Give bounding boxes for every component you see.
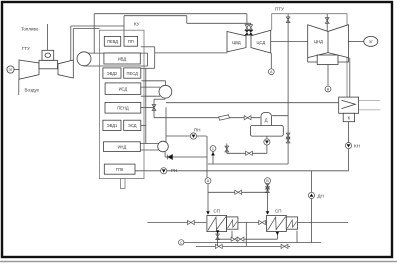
- condensate pump KN: [345, 143, 351, 149]
- svg-text:КН: КН: [354, 144, 360, 149]
- node B2: [265, 178, 271, 184]
- svg-text:СП: СП: [275, 209, 281, 214]
- check valve ND drum: [167, 155, 172, 160]
- svg-text:ДН: ДН: [318, 194, 324, 199]
- node A top: [268, 69, 274, 75]
- ESD outlet stub: [141, 124, 146, 126]
- line to condenser: [349, 58, 351, 98]
- extraction line down from PTU: [287, 14, 289, 164]
- feed pump line: [166, 135, 207, 137]
- A2 drop to SP1: [207, 184, 209, 214]
- deaerator inlet valve: [244, 116, 251, 120]
- KU right side vertical: [145, 68, 147, 143]
- ISD drum circulation lines: [141, 86, 160, 88]
- generator EG1: [7, 66, 14, 73]
- CND to generator: [348, 40, 363, 42]
- CSD to CND shaft line: [271, 40, 308, 42]
- chimney: [120, 179, 125, 189]
- svg-text:Воздух: Воздух: [25, 88, 40, 93]
- A-B bypass line: [208, 191, 268, 193]
- reheat steam line to CSD: [124, 15, 187, 17]
- ESD box: [124, 120, 141, 130]
- ISD box: [105, 83, 141, 95]
- PESD box: [124, 68, 141, 78]
- deaerator steam line: [272, 115, 288, 117]
- svg-text:ПТУ: ПТУ: [275, 7, 284, 12]
- PEND box: [105, 102, 141, 113]
- CND inlet valve: [325, 18, 329, 24]
- air inlet line: [18, 79, 20, 95]
- svg-text:ИВД: ИВД: [118, 56, 127, 61]
- svg-text:ЭВД2: ЭВД2: [107, 71, 118, 76]
- water line to deaerator: [154, 117, 260, 119]
- PP riser: [123, 16, 125, 37]
- SP1 drain cooler: [227, 217, 238, 229]
- SD drum steam line: [142, 80, 166, 82]
- node A2: [205, 178, 211, 184]
- extraction header to C: [208, 163, 288, 165]
- drain junction drop: [245, 223, 247, 247]
- C1 node riser: [212, 151, 214, 164]
- PP box: [124, 36, 138, 46]
- svg-text:ИСД: ИСД: [119, 87, 128, 92]
- network water inlet line: [147, 222, 206, 224]
- svg-text:ЦВД: ЦВД: [232, 40, 241, 45]
- KU outer box: [99, 30, 144, 178]
- IVD drum circulation lines: [84, 52, 148, 54]
- node C2: [179, 240, 184, 245]
- IP drum: [159, 85, 172, 98]
- PEND vent valve: [152, 105, 156, 111]
- C riser valve: [225, 146, 229, 152]
- svg-text:ПН: ПН: [194, 128, 200, 133]
- svg-text:РН: РН: [171, 168, 177, 173]
- drain pump DN: [308, 192, 314, 198]
- SP2 inlet valve: [259, 220, 266, 224]
- CSD cylinder: [251, 30, 271, 53]
- GT turbine: [58, 60, 73, 78]
- condensate line KN: [348, 149, 350, 171]
- node C1: [210, 146, 216, 152]
- svg-text:ЭСД: ЭСД: [128, 123, 137, 128]
- combustion chamber: [42, 50, 54, 60]
- svg-text:ГТУ: ГТУ: [22, 46, 30, 51]
- CND exhaust neck: [317, 55, 338, 65]
- IP stop valve: [249, 25, 253, 31]
- DN riser: [311, 171, 313, 243]
- CVD cylinder: [227, 32, 246, 52]
- drain header valve 1: [215, 244, 222, 248]
- condenser cooling water lines: [359, 100, 381, 102]
- CND cylinder: [308, 25, 349, 58]
- extraction valve top: [286, 17, 290, 23]
- B connector line: [327, 65, 329, 87]
- PEVD box: [104, 36, 120, 46]
- ND drum circulation lines: [140, 143, 163, 145]
- CND exhaust hood: [308, 58, 349, 62]
- svg-text:КУ: КУ: [134, 22, 140, 27]
- K box: [343, 113, 354, 121]
- EVD2 box: [103, 68, 121, 78]
- orifice device: [219, 115, 229, 120]
- EVD1 box: [103, 120, 121, 130]
- SP2 box: [267, 215, 287, 231]
- HP stop valve: [245, 25, 249, 31]
- network inlet valve: [188, 220, 195, 224]
- cold reheat line CVD to PP: [155, 52, 228, 54]
- drain header valve 2: [281, 244, 288, 248]
- svg-text:ПЕНД: ПЕНД: [117, 106, 129, 111]
- svg-text:ЭВД1: ЭВД1: [107, 123, 118, 128]
- generator EG2: [364, 36, 378, 46]
- B2 drop to SP2: [267, 184, 269, 214]
- deaerator tank: [250, 126, 283, 137]
- fresh steam line PEVD to CVD: [94, 13, 247, 15]
- IVD box: [104, 53, 140, 64]
- HP drum: [77, 52, 91, 66]
- flow arrows into SP: [206, 211, 210, 215]
- fuel line: [47, 24, 49, 50]
- bottom gray separator line: [0, 261, 397, 263]
- PEND outlet stub: [141, 107, 154, 109]
- C2 network return line: [184, 242, 321, 244]
- drain cross valves: [231, 237, 238, 241]
- GT shaft block: [39, 60, 58, 69]
- svg-text:ЭГ: ЭГ: [8, 68, 12, 72]
- svg-text:ЦНД: ЦНД: [314, 39, 323, 44]
- feed pump PN: [190, 133, 196, 139]
- svg-text:Топливо: Топливо: [21, 27, 39, 32]
- recirculation line: [135, 170, 349, 172]
- deaerator pump: [264, 139, 270, 145]
- svg-text:Д: Д: [265, 118, 268, 123]
- svg-text:ИНД: ИНД: [118, 145, 127, 150]
- drain cooler 1 drop: [231, 231, 233, 240]
- PTU outer box: [272, 14, 347, 103]
- compressor: [19, 60, 39, 79]
- drain cross line: [218, 238, 278, 240]
- SP1 drain valve: [216, 234, 220, 240]
- svg-text:ЭГ: ЭГ: [369, 40, 373, 44]
- A connector line: [270, 53, 272, 69]
- svg-text:ПП: ПП: [128, 39, 134, 44]
- GT exhaust duct: [70, 26, 72, 61]
- drain cooler 2 drop: [296, 231, 298, 243]
- SD drum bottom drain: [164, 98, 166, 100]
- bypass valve: [235, 190, 242, 194]
- generator shaft wire: [15, 69, 20, 71]
- ND drum steam inlet: [165, 107, 167, 142]
- deaerator extraction valves: [286, 133, 290, 139]
- svg-text:ЦСД: ЦСД: [256, 40, 265, 45]
- recirc pump RN: [161, 168, 167, 174]
- ND drum bottom line: [164, 152, 166, 157]
- K to KN pump: [348, 122, 350, 143]
- drain valve: [246, 151, 253, 155]
- IND box: [104, 142, 141, 152]
- svg-text:ГПК: ГПК: [116, 167, 124, 172]
- svg-text:ПЕВД: ПЕВД: [107, 39, 118, 44]
- CND inlet valve line: [326, 14, 328, 32]
- node B top: [325, 86, 331, 92]
- svg-text:ПЕСД: ПЕСД: [127, 71, 139, 76]
- SP2 drain cooler: [286, 217, 297, 229]
- deaerator drain line: [266, 136, 268, 139]
- svg-text:СП: СП: [214, 209, 220, 214]
- heat exchanger box: [339, 97, 359, 113]
- GPK box: [104, 164, 135, 174]
- B2 valves: [266, 183, 270, 189]
- SP1 drain drop: [217, 231, 219, 247]
- SP1 box: [207, 215, 227, 231]
- LP drum: [158, 141, 169, 152]
- bottom drain header: [196, 245, 290, 247]
- deaerator head: [261, 112, 271, 125]
- LP steam long line / PTU box bottom: [166, 102, 347, 104]
- SP2 drain drop: [276, 231, 278, 240]
